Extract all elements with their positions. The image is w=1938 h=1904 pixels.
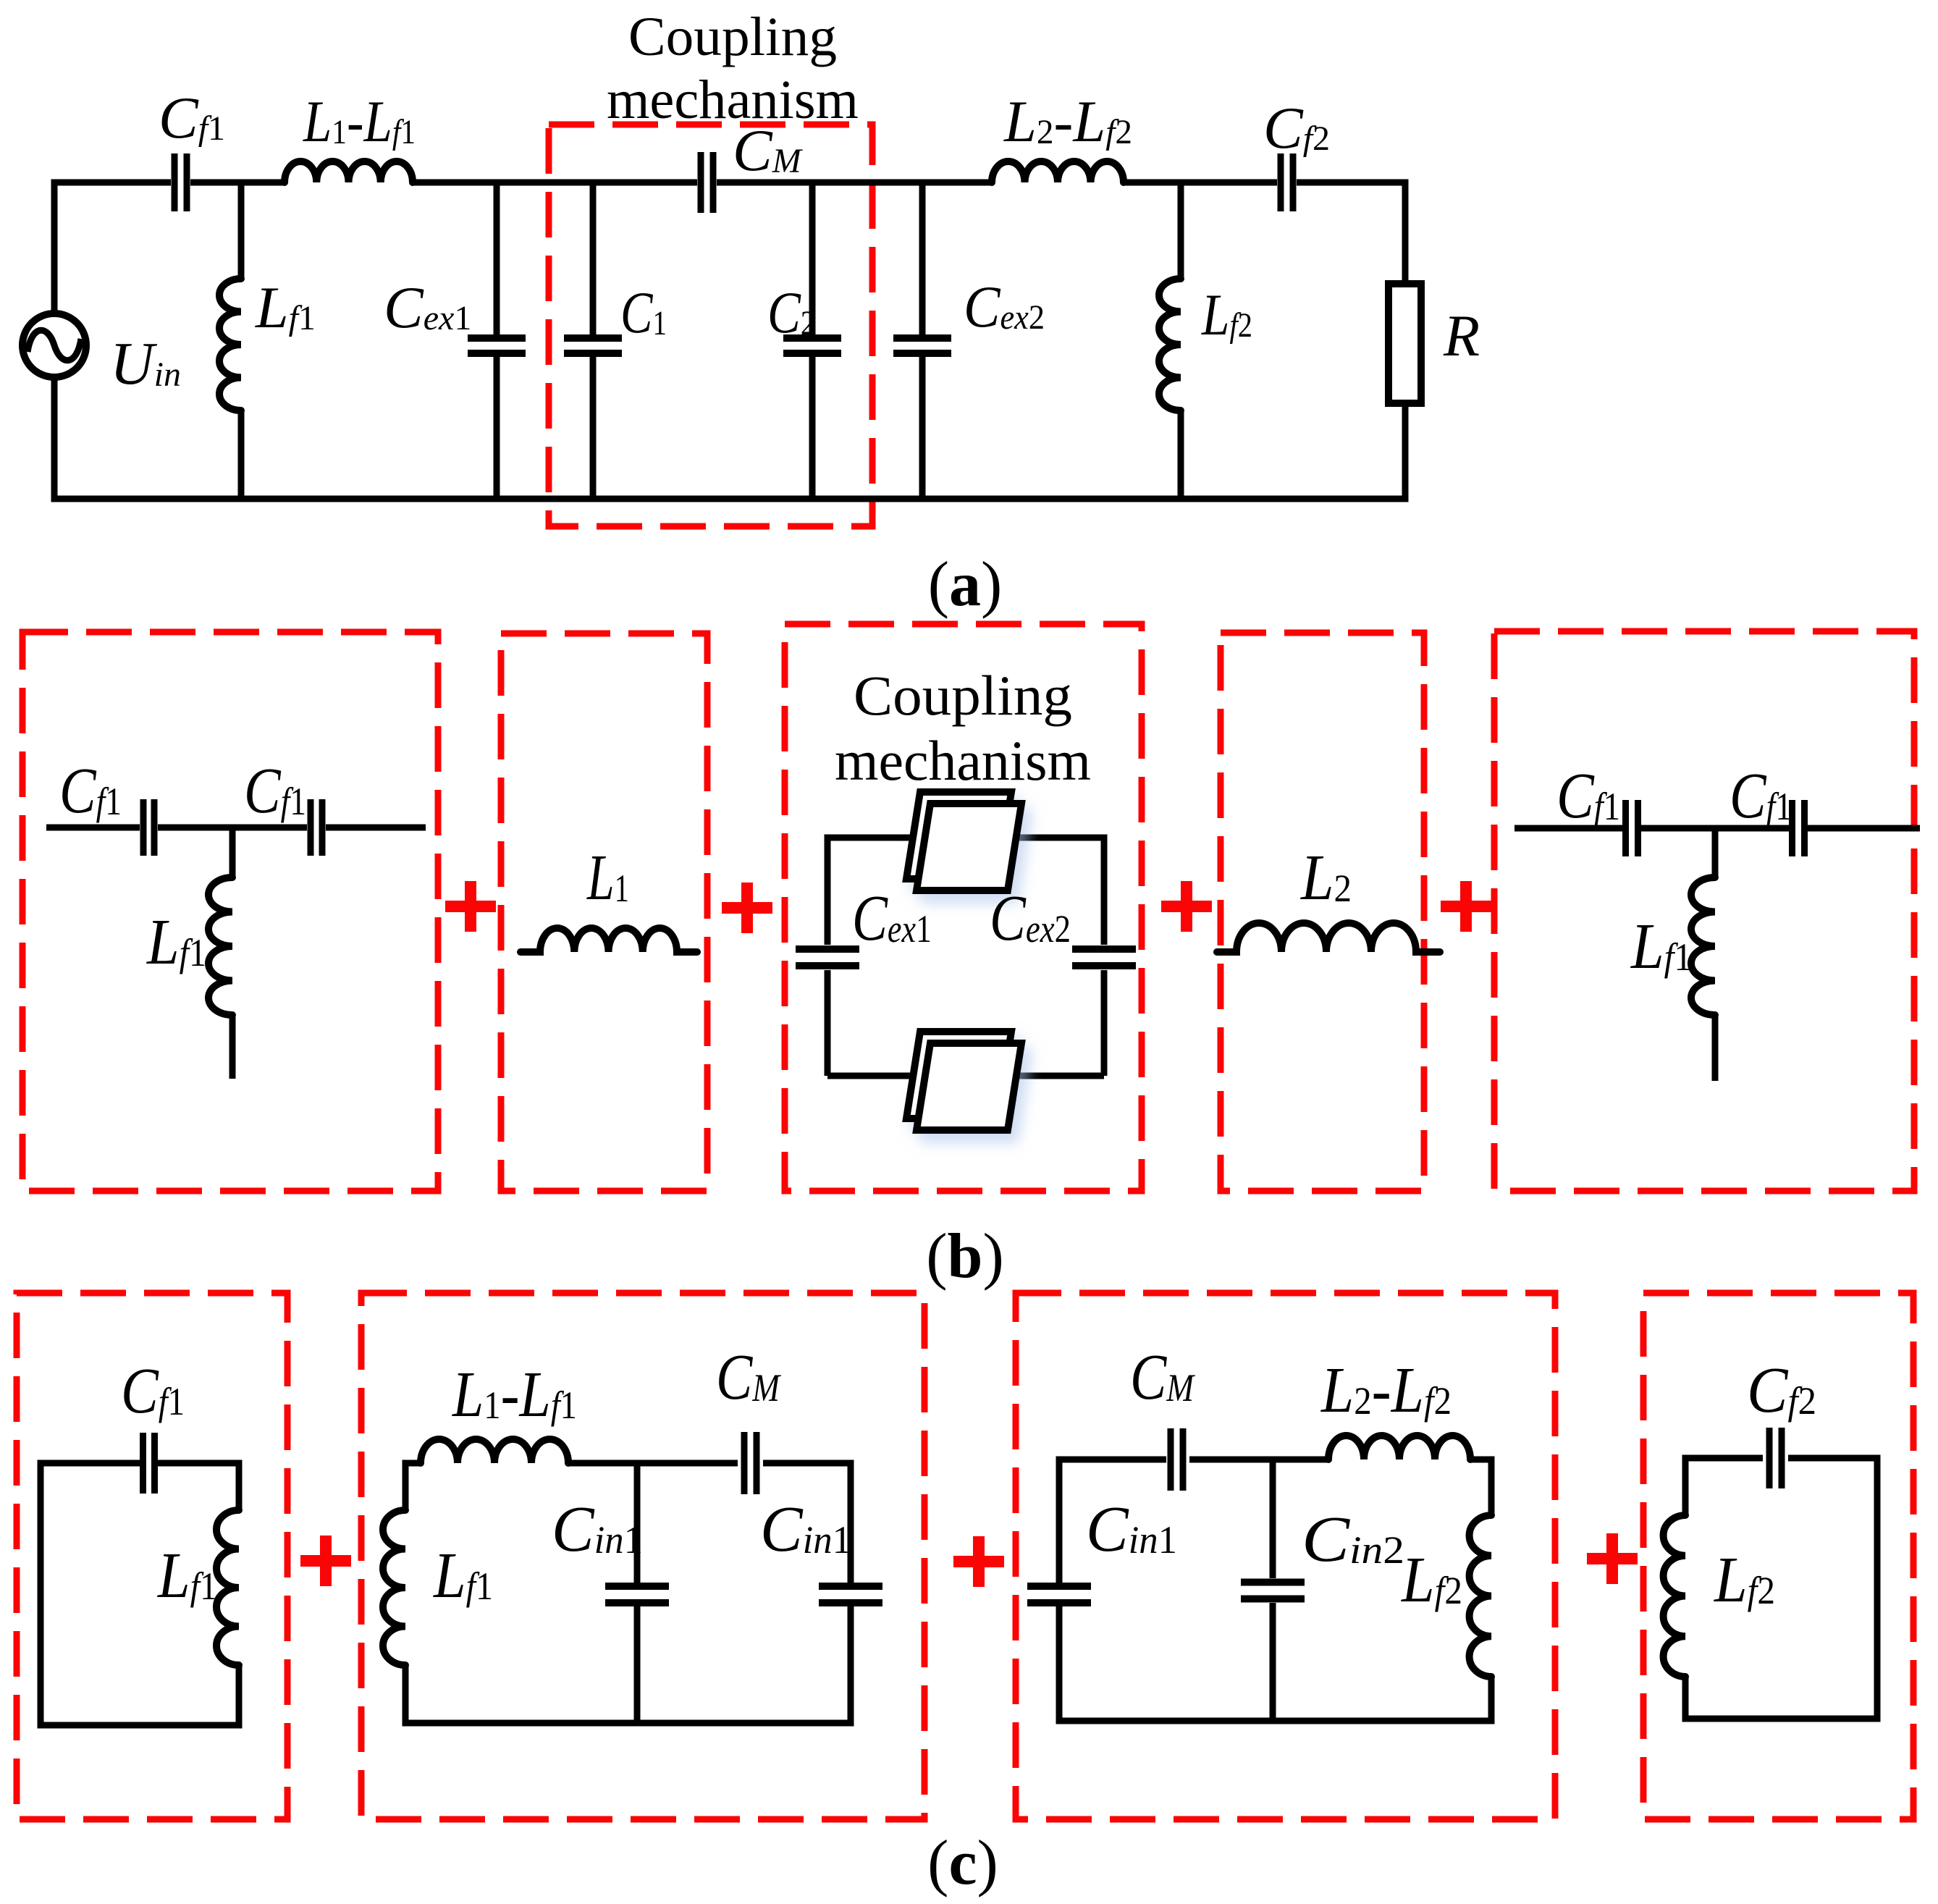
dashed box c2 (Lf1 L1-Lf1 Cin1 CM Cin1)	[361, 1293, 924, 1819]
plus sign 2 (c)	[953, 1536, 1004, 1587]
wire b1 left segment	[46, 825, 140, 831]
capacitor Cin1 (c3)	[1027, 1586, 1091, 1603]
wire C1 branch upper (a)	[590, 182, 597, 334]
wire top: L2-Lf2 to Cf2	[1124, 180, 1277, 186]
wire b3 loop top-left corner	[827, 838, 914, 945]
plus sign 3 (c)	[1587, 1533, 1638, 1584]
wire b5 left segment	[1514, 825, 1622, 832]
coupling plate bottom plate pair (b3)	[906, 1032, 1021, 1130]
wire c2 middle branch lower	[634, 1606, 641, 1723]
wire b1 right segment	[326, 825, 426, 831]
wire b1 middle segment	[158, 825, 307, 831]
wire Lf2 branch upper (a)	[1178, 182, 1184, 279]
capacitor CM (c2)	[744, 1432, 757, 1494]
inductor L1 (b2)	[521, 928, 697, 952]
capacitor C2 (a)	[783, 338, 841, 353]
capacitor Cf1 (c1)	[143, 1433, 155, 1494]
wire b5 tee tail	[1712, 1015, 1719, 1081]
wire Lf1 branch lower (a)	[238, 410, 245, 499]
wire top: Cf1 to L1-Lf1	[190, 180, 285, 186]
wire b3 loop left lower	[825, 970, 831, 1076]
dashed box c4 (Cf2 Lf2 loop)	[1643, 1293, 1913, 1819]
inductor Lf2 (a)	[1159, 279, 1181, 410]
wire c4 top-left corner	[1685, 1458, 1763, 1515]
inductor Lf1 (b1)	[208, 877, 232, 1015]
dashed box b5 (Cf1-Cf1-Lf1 tee)	[1494, 631, 1914, 1191]
plus sign 3 (b)	[1161, 881, 1212, 932]
wire Cex1 branch upper (a)	[494, 182, 500, 334]
capacitor Cf1 right (b1)	[311, 799, 322, 856]
dashed box b1 (Cf1-Cf1-Lf1 tee)	[22, 632, 438, 1191]
capacitor C1 (a)	[564, 338, 622, 353]
wire c2 top-left corner	[405, 1463, 421, 1510]
AC source Uin	[22, 313, 86, 377]
dashed box c1 (Cf1 Lf1 loop)	[17, 1293, 287, 1819]
capacitor Cf2 (a)	[1281, 153, 1293, 211]
wire c2 top middle	[568, 1460, 738, 1467]
wire c3 middle branch lower	[1270, 1603, 1276, 1721]
dashed box b3 (coupling mechanism)	[785, 624, 1142, 1191]
svg-text:(c): (c)	[927, 1828, 998, 1898]
wire c2 middle branch upper	[634, 1463, 641, 1583]
svg-text:(b): (b)	[926, 1221, 1004, 1292]
wire b3 loop bottom-right corner	[1010, 970, 1104, 1076]
inductor Lf1 (c2)	[383, 1510, 405, 1665]
inductor L2-Lf2 (a)	[992, 161, 1124, 182]
wire C2 branch lower (a)	[809, 357, 816, 499]
plus sign 4 (b)	[1441, 881, 1491, 932]
wire c3 top-right corner	[1470, 1459, 1491, 1515]
capacitor Cex2 (b3)	[1072, 949, 1136, 966]
inductor L2 (b4)	[1217, 923, 1440, 952]
plus sign 2 (b)	[722, 883, 772, 933]
wire Lf1 branch upper (a)	[238, 182, 245, 279]
svg-text:Coupling: Coupling	[854, 664, 1072, 727]
inductor Lf1 (a)	[219, 279, 241, 410]
coupling mechanism dashed box (a)	[549, 125, 872, 526]
wire C1 branch lower (a)	[590, 357, 597, 499]
wire Lf2 branch lower (a)	[1178, 410, 1184, 499]
wire b5 tee down	[1712, 828, 1719, 877]
wire Cex2 branch upper (a)	[919, 182, 926, 334]
capacitor Cex2 (a)	[893, 338, 951, 353]
plus sign 1 (c)	[300, 1536, 351, 1586]
inductor L1-Lf1 (a)	[285, 161, 413, 182]
dashed box c3 (Cin1 CM Cin2 L2-Lf2 Lf2)	[1016, 1293, 1555, 1819]
wire left rail bottom (a)	[51, 377, 58, 499]
wire Cex1 branch lower (a)	[494, 357, 500, 499]
capacitor CM (a)	[701, 152, 713, 213]
capacitor Cf1 (a)	[174, 153, 187, 211]
wire c4 bottom/right corners	[1685, 1458, 1877, 1719]
inductor Lf1 (b5)	[1691, 877, 1715, 1015]
coupling plate top plate pair (b3)	[906, 792, 1021, 890]
dashed box b2 (L1)	[501, 633, 707, 1191]
wire c3 middle branch upper	[1270, 1459, 1276, 1578]
dashed box b4 (L2)	[1221, 633, 1424, 1191]
wire c2 bottom corners	[405, 1606, 851, 1723]
wire c3 bottom corners	[1059, 1606, 1491, 1721]
capacitor Cex1 (b3)	[796, 949, 859, 966]
wire c1 loop left/bottom corners	[41, 1463, 239, 1725]
svg-text:Coupling: Coupling	[628, 7, 837, 67]
capacitor Cin1 right (c2)	[819, 1586, 882, 1603]
wire left rail + top-left corner (a)	[54, 182, 171, 313]
capacitor Cf2 (c4)	[1769, 1428, 1782, 1488]
inductor L1-Lf1 (c2)	[421, 1439, 568, 1463]
plus sign 1 (b)	[445, 881, 496, 932]
capacitor Cex1 (a)	[468, 338, 526, 353]
wire top: L1-Lf1 to CM	[413, 180, 697, 186]
capacitor Cf1 right (b5)	[1792, 800, 1805, 856]
wire c1 top-right corner	[158, 1463, 239, 1510]
wire Cex2 branch lower (a)	[919, 357, 926, 499]
wire b1 tee tail	[229, 1015, 236, 1079]
wire C2 branch upper (a)	[809, 182, 816, 334]
wire c3 top-left corner	[1059, 1459, 1166, 1583]
wire b1 tee down	[229, 827, 236, 877]
inductor Lf2 (c3)	[1470, 1515, 1491, 1677]
inductor Lf2 (c4)	[1664, 1515, 1685, 1677]
wire b5 middle segment	[1641, 825, 1789, 832]
capacitor Cin1 left (c2)	[605, 1586, 669, 1603]
wire top: CM to L2-Lf2	[717, 180, 992, 186]
capacitor Cin2 (c3)	[1241, 1583, 1305, 1599]
capacitor CM (c3)	[1171, 1428, 1183, 1491]
svg-text:mechanism: mechanism	[835, 729, 1091, 792]
capacitor Cf1 left (b1)	[143, 799, 154, 856]
wire c2 top-right corner	[763, 1463, 851, 1583]
svg-text:(a): (a)	[928, 549, 1003, 620]
inductor L2-Lf2 (c3)	[1328, 1436, 1470, 1459]
wire b3 loop top-right corner	[1010, 838, 1104, 945]
inductor Lf1 (c1)	[216, 1510, 239, 1665]
wire bottom rail with corners (a)	[54, 377, 1405, 499]
wire top-right corner + right rail (a)	[1297, 182, 1405, 284]
wire c3 top middle	[1189, 1457, 1328, 1463]
svg-text:R: R	[1443, 303, 1480, 368]
capacitor Cf1 left (b5)	[1626, 800, 1638, 856]
wire b5 right segment	[1808, 825, 1920, 832]
resistor R	[1389, 284, 1421, 403]
wire b3 loop bottom left	[827, 1073, 914, 1079]
